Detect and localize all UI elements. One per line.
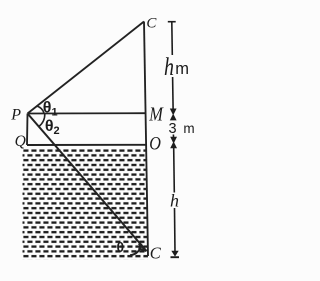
dim bottom arrowhead (171, 251, 178, 257)
angle arc theta1 at P (36, 106, 44, 113)
svg-text:M: M (148, 103, 164, 125)
svg-text:m: m (183, 121, 194, 136)
wire line PC (line of sight up to cloud C) (28, 22, 145, 114)
dim arrowheads at O (170, 137, 177, 144)
wire line PC' (sight line to reflection, with arrowhead) (28, 114, 147, 252)
svg-text:h: h (170, 191, 179, 211)
svg-text:O: O (149, 132, 161, 154)
dim segment top (h m upper part) (171, 22, 174, 55)
wire horizontal QO (water surface) (27, 144, 146, 146)
wire vertical line C-M-O-C' (144, 22, 148, 257)
svg-text:3: 3 (169, 121, 177, 137)
wire horizontal PM (28, 112, 146, 114)
svg-text:m: m (175, 60, 189, 78)
svg-text:C: C (150, 243, 162, 262)
svg-text:θ: θ (117, 239, 125, 255)
dim top T-bar (168, 21, 176, 23)
svg-text:Q: Q (15, 133, 26, 150)
dim segment below 3 m (172, 135, 174, 138)
water (hatched lake region) (23, 148, 149, 259)
svg-text:C: C (146, 15, 157, 31)
dimension line right side (168, 22, 179, 258)
svg-text:h: h (164, 53, 174, 81)
dim bottom bar (171, 256, 180, 258)
dim segment O to h (173, 148, 176, 193)
svg-text:P: P (10, 106, 21, 123)
wire vertical PQ (26, 114, 29, 146)
dim segment h to bottom (174, 208, 177, 253)
dim segment below h m (172, 77, 175, 109)
angle arc theta2 at P (39, 114, 45, 127)
dim arrowheads at M (170, 109, 177, 116)
angle arc theta at C' (bottom) (130, 244, 141, 256)
